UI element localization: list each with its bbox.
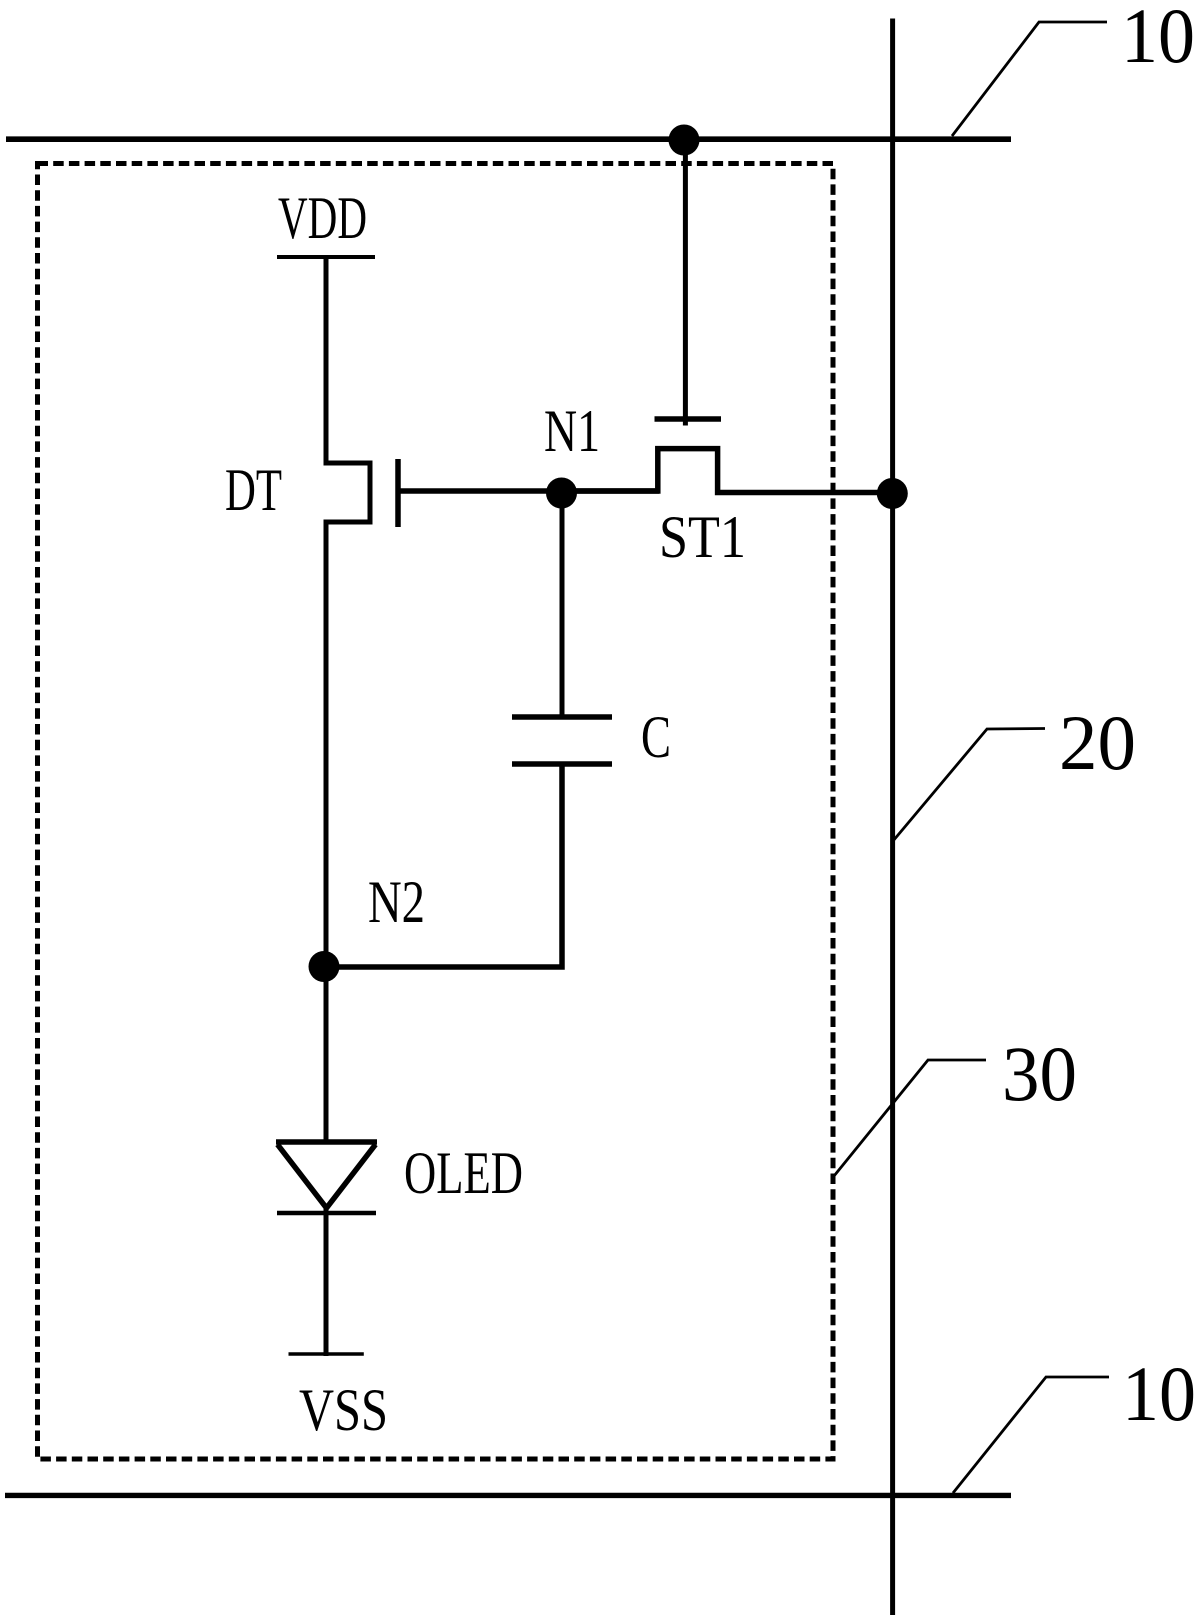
svg-text:ST1: ST1 (659, 504, 746, 570)
svg-text:N1: N1 (544, 398, 600, 464)
svg-text:10: 10 (1121, 0, 1195, 79)
svg-text:30: 30 (1002, 1030, 1077, 1117)
junction dot on scan line (669, 125, 700, 156)
junction dot on data line (877, 478, 908, 509)
svg-text:VDD: VDD (278, 185, 367, 251)
svg-text:10: 10 (1122, 1350, 1196, 1437)
wire N2 to OLED (324, 966, 329, 1142)
svg-text:C: C (641, 704, 671, 770)
svg-text:20: 20 (1059, 699, 1136, 786)
wire DT gate to node N1 and to ST1 (398, 488, 659, 494)
diode OLED (276, 1139, 377, 1145)
svg-text:DT: DT (225, 457, 282, 523)
transistor ST1 channel and wire to data line (563, 449, 892, 493)
leader line 10 (bottom) (953, 1377, 1109, 1493)
scan line 10 (top) (6, 136, 1011, 142)
transistor DT gate bar (395, 459, 401, 527)
wire N1 to capacitor (560, 493, 565, 717)
svg-text:OLED: OLED (404, 1140, 523, 1206)
data line 20 (890, 19, 895, 1616)
leader line 10 (top) (952, 22, 1107, 136)
leader line 20 (893, 729, 1045, 842)
pixel circuit boundary 30 (dashed box) (38, 164, 834, 1460)
VSS ground bar (289, 1352, 364, 1356)
wire ST1 gate lead (683, 140, 688, 426)
svg-text:N2: N2 (368, 869, 425, 935)
transistor ST1 gate bar (655, 416, 722, 422)
VDD supply bar (277, 255, 375, 259)
wire capacitor to N2 (324, 764, 562, 967)
node N1 (546, 478, 577, 509)
capacitor C (512, 714, 612, 720)
leader line 30 (834, 1060, 986, 1176)
wire VDD to DT source, transistor DT channel, drain wire down to N2 (326, 257, 370, 966)
scan line 10 (bottom) (5, 1493, 1011, 1498)
svg-text:VSS: VSS (299, 1377, 388, 1443)
node N2 (309, 951, 340, 982)
wire OLED to VSS (324, 1208, 329, 1356)
